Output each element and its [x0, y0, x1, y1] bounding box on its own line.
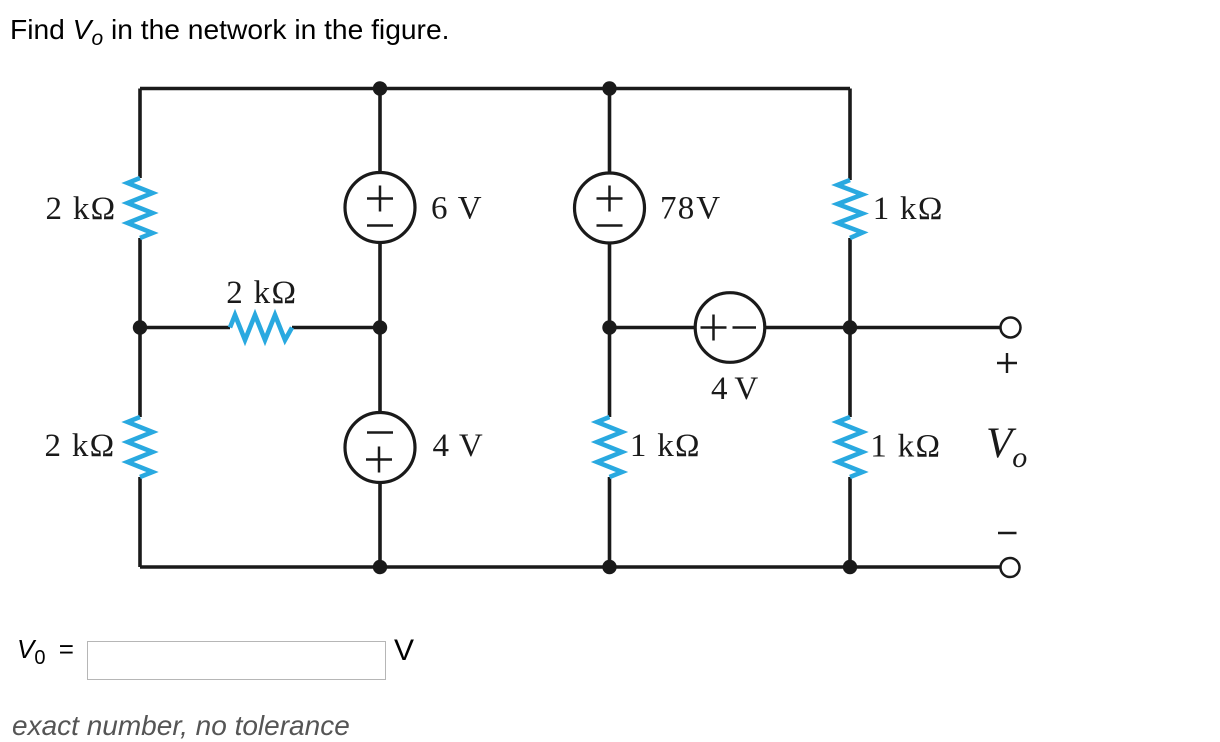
voltage source 4V lower circle [345, 413, 415, 483]
node middle left [133, 320, 147, 334]
wire left rail middle [138, 238, 142, 417]
wire second rail below 1k resistor [608, 477, 612, 567]
svg-text:6 V: 6 V [431, 191, 483, 227]
resistor 1k ohm right top [838, 180, 863, 238]
svg-text:1 kΩ: 1 kΩ [873, 191, 944, 227]
voltage source 78V circle [575, 173, 645, 243]
voltage source 78V minus sign [597, 224, 623, 227]
svg-text:4V: 4V [433, 428, 484, 464]
voltage source 4V lower minus sign [367, 431, 393, 434]
node top middle [373, 81, 387, 95]
output minus sign [998, 532, 1017, 535]
wire right rail middle [848, 238, 852, 417]
wire top rail [140, 87, 850, 91]
output terminal bottom [1001, 558, 1020, 577]
svg-text:2 kΩ: 2 kΩ [46, 191, 117, 227]
wire middle rail above 6V source [378, 89, 382, 173]
voltage source 6V circle [345, 173, 415, 243]
wire left rail upper [138, 89, 142, 179]
wire middle rail between 6V and 4V sources [378, 243, 382, 413]
svg-text:1 kΩ: 1 kΩ [870, 429, 941, 465]
answer label V0 = [17, 634, 74, 670]
wire bottom rail [140, 565, 1000, 569]
resistor 1k ohm right bottom [838, 417, 863, 477]
node bottom second [602, 560, 616, 574]
wire second rail above 78V source [608, 89, 612, 174]
svg-text:78V: 78V [660, 191, 721, 227]
resistor 2k ohm horizontal [230, 315, 292, 340]
voltage source 4V horizontal circle [695, 293, 765, 363]
svg-text:2 kΩ: 2 kΩ [226, 275, 297, 311]
wire middle rail below 4V source [378, 483, 382, 568]
node bottom right [843, 560, 857, 574]
voltage source 4V lower plus sign [366, 447, 392, 473]
voltage source 6V plus sign [367, 186, 393, 212]
voltage source 6V minus sign [367, 224, 393, 227]
wire middle horizontal left segment b [292, 326, 380, 330]
output plus sign [997, 353, 1017, 373]
resistor 1k ohm second rail bottom [597, 417, 622, 477]
svg-text:4V: 4V [711, 371, 759, 407]
wire left rail lower [138, 477, 142, 567]
resistor 2k ohm left bottom [128, 417, 153, 477]
wire second rail below 78V source [608, 243, 612, 417]
wire right rail lower [848, 477, 852, 567]
node middle under 6V [373, 320, 387, 334]
node middle second rail [602, 320, 616, 334]
wire right rail upper [848, 89, 852, 181]
output terminal top [1001, 318, 1021, 338]
answer unit V [394, 634, 414, 668]
resistor 2k ohm left top [128, 178, 153, 238]
wire middle horizontal left segment [140, 326, 230, 330]
svg-text:Vo: Vo [986, 420, 1027, 474]
wire middle horizontal to output terminal [765, 326, 1000, 330]
wire middle horizontal right segment [610, 326, 696, 330]
svg-text:2 kΩ: 2 kΩ [45, 428, 116, 464]
svg-text:1 kΩ: 1 kΩ [630, 428, 701, 464]
voltage source 78V plus sign [597, 186, 623, 212]
node top second [602, 81, 616, 95]
answer input box [87, 641, 386, 680]
title text [10, 13, 449, 46]
node middle right rail [843, 320, 857, 334]
voltage source 4V horizontal minus sign [733, 326, 757, 329]
voltage source 4V horizontal plus sign [701, 315, 727, 341]
tolerance note [12, 710, 350, 742]
node bottom middle [373, 560, 387, 574]
